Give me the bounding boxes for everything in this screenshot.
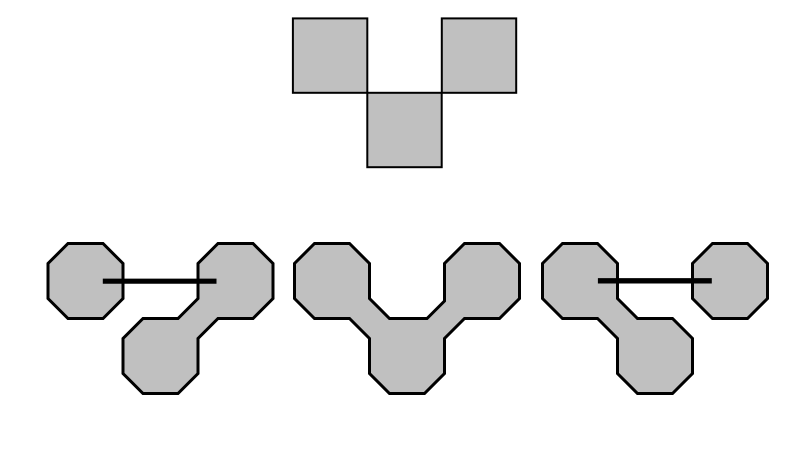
square top-right — [442, 18, 516, 92]
merged octagons fig3 top-left + bottom-middle with diagonal neck — [543, 244, 693, 394]
square bottom-middle — [367, 93, 441, 167]
merged octagons fig1 top-right + bottom-middle with diagonal neck — [123, 244, 273, 394]
merged octagons fig2 top-left + bottom-middle + top-right — [295, 244, 520, 394]
square top-left — [293, 18, 367, 92]
octagon fig1 top-left (separate) — [48, 244, 123, 319]
connector line fig3 — [598, 278, 712, 283]
connector line fig1 — [103, 279, 217, 284]
octagon fig3 top-right (separate) — [693, 244, 768, 319]
